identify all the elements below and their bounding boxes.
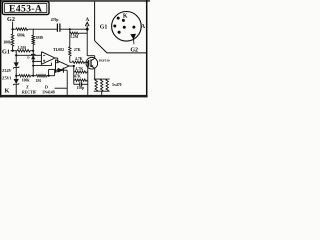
node U1b out <box>73 65 75 67</box>
svg-text:150p: 150p <box>76 86 84 90</box>
svg-text:TL082: TL082 <box>53 48 64 52</box>
socket key wedge (G2) <box>130 34 136 40</box>
node lower row <box>48 75 50 77</box>
wire 100k to G1 node <box>12 46 14 50</box>
svg-text:A: A <box>86 17 90 23</box>
resistor 100k vertical <box>11 34 14 46</box>
wire 27K bottom <box>69 56 71 62</box>
transistor Q1 gate bar <box>88 60 90 67</box>
resistor 47K <box>75 79 87 81</box>
bank resistor a <box>95 79 97 91</box>
node X rail bottom <box>32 75 34 77</box>
svg-text:4.7K: 4.7K <box>76 67 84 71</box>
title box <box>2 2 49 15</box>
wire 1.2M to rail <box>79 32 87 34</box>
wire main top run a <box>13 28 16 30</box>
wire lower row a <box>16 75 19 77</box>
wire 3M9 to node X <box>32 45 34 51</box>
pin dot 2 <box>122 19 125 22</box>
wire minus input <box>16 54 41 56</box>
svg-text:100k: 100k <box>22 78 31 82</box>
border frame top <box>0 0 150 2</box>
svg-text:1M: 1M <box>36 79 42 83</box>
node G1 junction <box>12 50 14 52</box>
svg-text:K: K <box>123 14 128 20</box>
wire zener chain top <box>15 51 17 56</box>
op-amp U1a <box>41 52 55 65</box>
diode D2 <box>58 68 64 73</box>
node feedback <box>32 65 34 67</box>
svg-text:470p: 470p <box>51 18 59 22</box>
svg-text:K: K <box>5 87 10 94</box>
node X <box>32 50 34 52</box>
node zener mid <box>15 75 17 77</box>
capacitor 470p <box>56 24 58 32</box>
wire zener drop 1 <box>15 55 17 62</box>
svg-text:47K: 47K <box>74 74 81 78</box>
svg-text:1.2M: 1.2M <box>70 35 79 39</box>
wire G1 lead <box>11 50 18 52</box>
wire zener drop 2 <box>15 76 17 79</box>
svg-text:1N4148: 1N4148 <box>42 90 55 94</box>
op-amp U1b <box>56 60 70 73</box>
border frame right <box>146 0 148 97</box>
wire plus2 input <box>49 68 56 70</box>
svg-text:G2: G2 <box>7 16 15 23</box>
node plus wire <box>32 60 34 62</box>
svg-text:100k: 100k <box>3 41 12 45</box>
svg-text:RECTIF: RECTIF <box>22 90 37 94</box>
wire gate lead <box>85 61 89 63</box>
wire D2 top <box>55 69 68 71</box>
panel diagonal corner <box>95 41 107 53</box>
wire source rail <box>94 69 96 80</box>
wire 1.2M stub <box>69 29 71 33</box>
wire 27K top <box>69 33 71 46</box>
bank resistor b <box>101 79 103 91</box>
svg-text:4.7K: 4.7K <box>75 57 83 61</box>
svg-text:D: D <box>45 84 48 89</box>
bank top bar <box>94 78 110 80</box>
node zener top <box>15 54 17 56</box>
wire cathode to bottom <box>15 84 17 95</box>
node gate divider <box>87 61 89 63</box>
transistor Q1 source lead <box>91 66 95 68</box>
wire anode rail corner <box>87 55 95 57</box>
bank resistor c <box>106 79 108 91</box>
resistor 100k lower <box>19 75 31 78</box>
zener Z14V <box>14 62 19 67</box>
svg-text:G2: G2 <box>130 48 138 54</box>
svg-text:E453-A: E453-A <box>9 4 42 15</box>
wire divider rail right <box>87 62 89 84</box>
pin dot 6 (A) <box>132 26 135 29</box>
resistor 4.7K divider <box>75 71 87 73</box>
svg-text:A: A <box>141 24 146 30</box>
svg-text:G1: G1 <box>2 49 10 56</box>
arrow to anode A <box>85 22 89 26</box>
wire main top run b <box>28 28 58 30</box>
panel bottom edge <box>107 52 147 54</box>
resistor 27K <box>69 47 71 56</box>
tube socket circle U1 <box>112 11 142 41</box>
resistor 1M lower <box>36 75 46 78</box>
transistor Q1 body <box>86 57 98 69</box>
wire anode rail <box>86 29 88 56</box>
wire U1a out <box>55 57 58 59</box>
wire lower row c <box>47 75 55 77</box>
wire zener mid <box>15 68 17 76</box>
wire D2 right riser <box>66 70 68 95</box>
wire G1 run to node X <box>30 50 33 52</box>
transistor Q1 channel bar <box>90 59 92 67</box>
svg-text:G1: G1 <box>100 25 108 31</box>
wire G2 drop <box>12 22 14 34</box>
resistor 680k <box>16 28 28 31</box>
svg-text:680k: 680k <box>17 34 26 38</box>
pin dot 3 (G1) <box>113 25 116 28</box>
wire divider to bottom <box>87 84 89 95</box>
pin dot 1 <box>117 17 120 20</box>
wire D1 to plus <box>32 59 34 61</box>
svg-text:Z: Z <box>26 84 29 89</box>
border frame bottom <box>0 95 148 98</box>
wire X rail down <box>32 61 34 75</box>
svg-text:5x470: 5x470 <box>112 83 122 87</box>
panel left edge <box>94 2 96 41</box>
wire node X to D1 <box>32 51 34 55</box>
svg-text:Z5V1: Z5V1 <box>2 76 11 80</box>
wire lower row b <box>31 75 37 77</box>
resistor 1.5M <box>17 50 30 53</box>
node 1.2M top <box>69 28 71 30</box>
wire divider rail left <box>73 66 75 84</box>
node G2 junction <box>12 28 14 30</box>
pin dot 5 <box>118 31 121 34</box>
svg-text:27K: 27K <box>74 48 81 52</box>
wedge lead to G2 label <box>133 39 136 45</box>
wire 3M9 drop <box>32 29 34 35</box>
svg-text:Z14V: Z14V <box>2 69 11 73</box>
border frame left <box>0 0 2 98</box>
capacitor 150p <box>74 83 80 85</box>
svg-text:IRF510: IRF510 <box>99 58 110 62</box>
wire U1b out <box>69 65 74 67</box>
wire gate row a <box>70 61 73 63</box>
node A terminal <box>86 28 89 31</box>
pin dot 4 (center) <box>123 26 126 29</box>
svg-text:1.5M: 1.5M <box>18 46 27 50</box>
bank bottom bar <box>94 90 110 92</box>
resistor 1.2M <box>70 32 79 34</box>
svg-text:3M9: 3M9 <box>36 36 43 40</box>
transistor Q1 drain lead <box>91 58 95 60</box>
wire plus2 riser <box>48 69 50 75</box>
wire D2 bottom <box>55 87 68 89</box>
wire D2 left riser <box>54 70 56 76</box>
zener Z5V1 <box>14 79 19 84</box>
wire feedback run <box>33 65 51 67</box>
resistor 3M9 <box>32 35 35 44</box>
wire main top run c <box>60 28 87 30</box>
bank to bottom border <box>101 91 103 95</box>
wire plus input <box>33 60 41 62</box>
diode D1 <box>31 53 35 55</box>
resistor 4.7K gate <box>72 61 84 63</box>
